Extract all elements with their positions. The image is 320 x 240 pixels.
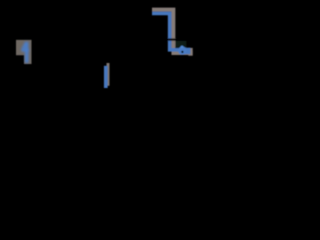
marker X1 (dark crossing bar on trace) bbox=[165, 38, 177, 40]
pad P1 (gray square of layer badge) bbox=[16, 40, 32, 64]
wire W1 shadow (gray vertical stub) bbox=[107, 63, 110, 86]
trace T2 (gray routed trace) bbox=[152, 10, 193, 53]
pad P2 (faint dark green rect near via) bbox=[172, 41, 186, 48]
trace T2 end cap (gray block at right end) bbox=[188, 48, 192, 56]
via V1 (blue ring) bbox=[178, 46, 186, 54]
wire W1 (blue vertical stub) bbox=[104, 66, 108, 88]
via V1 drill hole bbox=[181, 51, 183, 53]
label "4" (blue numeral on badge) bbox=[21, 42, 29, 63]
trace T1 end block (thicker blue end) bbox=[184, 48, 190, 54]
via V1 highlight dot bbox=[181, 46, 184, 49]
trace T1 (blue routed trace) bbox=[152, 13, 190, 49]
